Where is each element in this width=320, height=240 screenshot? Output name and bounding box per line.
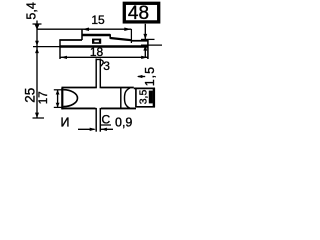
svg-text:3,5: 3,5 <box>137 90 149 105</box>
svg-text:3: 3 <box>103 59 110 73</box>
svg-text:25: 25 <box>23 88 38 103</box>
svg-text:0,9: 0,9 <box>115 116 132 130</box>
svg-text:C: C <box>101 113 110 127</box>
svg-text:И: И <box>61 115 70 129</box>
svg-text:15: 15 <box>91 13 105 27</box>
svg-text:1,5: 1,5 <box>143 66 157 86</box>
svg-text:18: 18 <box>90 45 104 59</box>
svg-text:48: 48 <box>128 3 149 24</box>
svg-text:5,4: 5,4 <box>25 2 39 19</box>
svg-text:17: 17 <box>38 91 50 104</box>
